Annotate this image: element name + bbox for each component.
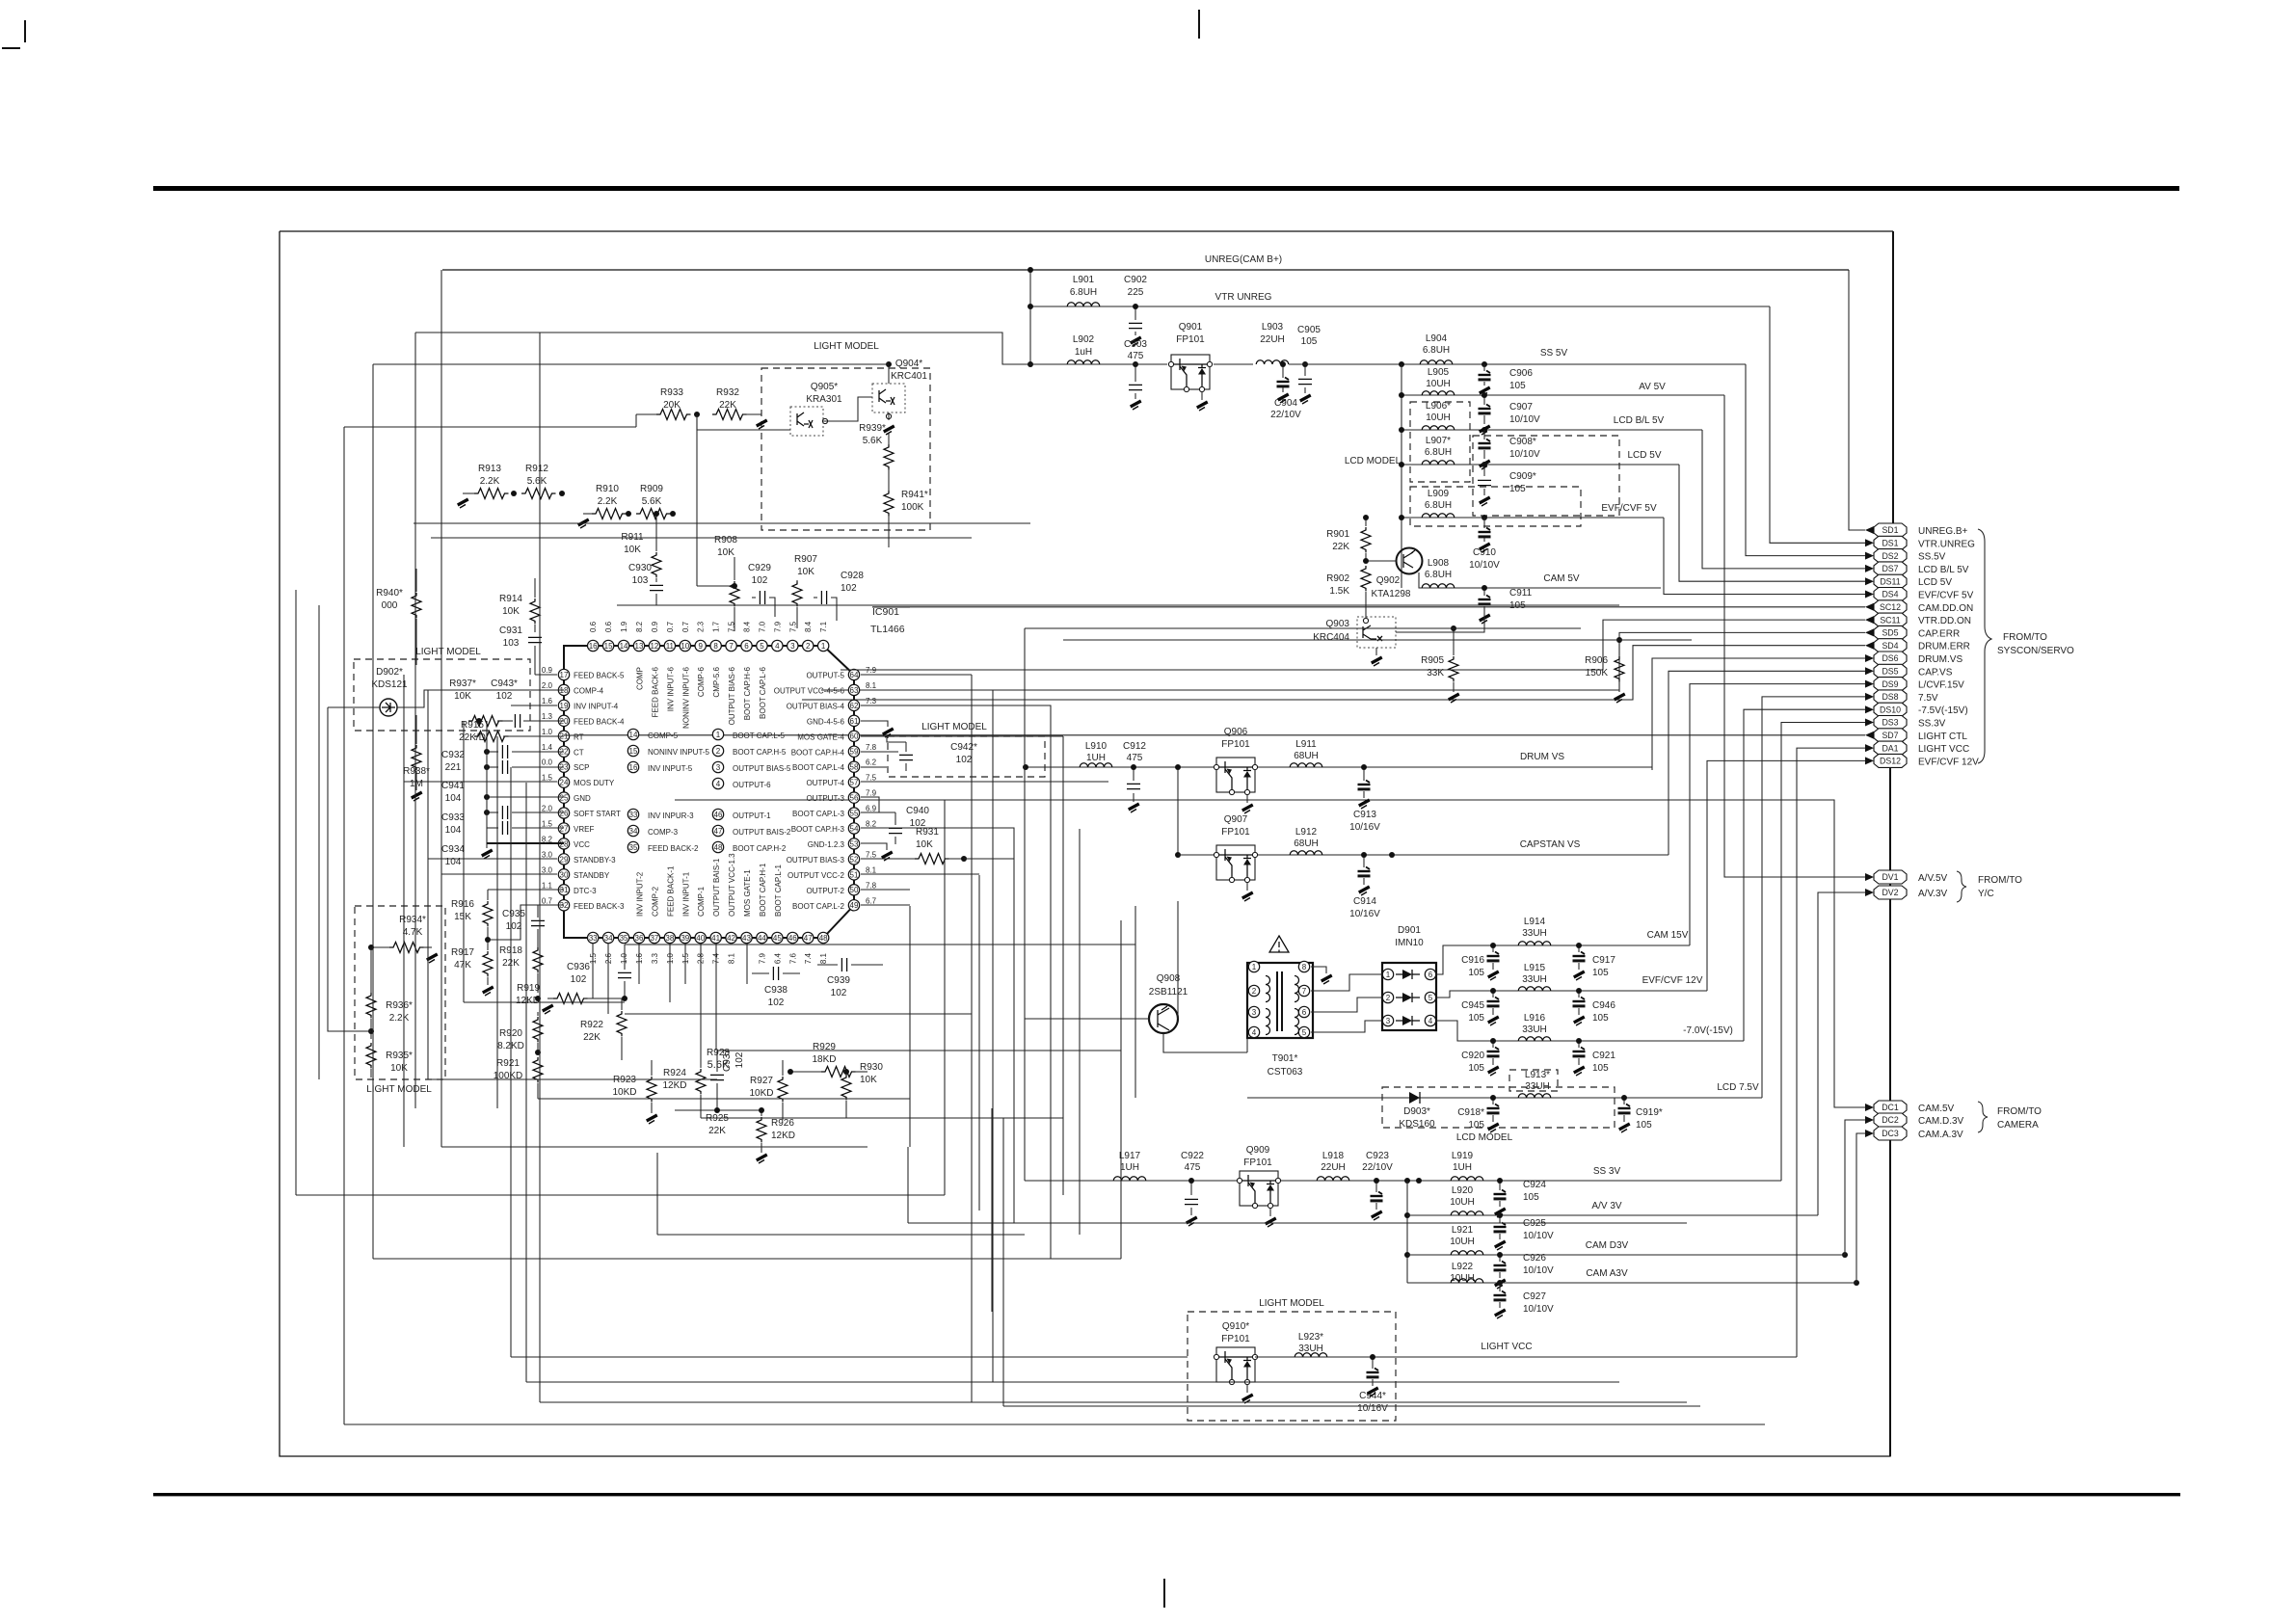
capacitor C925 bbox=[1494, 1212, 1555, 1250]
resistor R926 bbox=[756, 1107, 795, 1163]
net LCD B/L 5V bbox=[1402, 429, 1702, 431]
svg-text:60: 60 bbox=[850, 732, 859, 741]
inductor L915 bbox=[1518, 963, 1551, 991]
svg-text:C911: C911 bbox=[1509, 588, 1533, 599]
connector pin SD5 bbox=[1865, 625, 1960, 639]
svg-text:29: 29 bbox=[560, 855, 569, 864]
IC901 pin 35 (bottom) bbox=[618, 932, 628, 964]
svg-text:22UH: 22UH bbox=[1321, 1162, 1346, 1173]
IC901 pin 53 (right) bbox=[808, 838, 860, 849]
svg-text:1: 1 bbox=[821, 642, 826, 651]
svg-text:3.3: 3.3 bbox=[651, 952, 659, 964]
wire to pin DC3 bbox=[1856, 1133, 1865, 1283]
svg-text:56: 56 bbox=[850, 794, 859, 803]
IC901 pin 11 (top) bbox=[664, 621, 675, 711]
svg-text:105: 105 bbox=[1523, 1192, 1539, 1203]
svg-text:225: 225 bbox=[1128, 287, 1144, 298]
inductor L902 bbox=[1067, 334, 1100, 364]
connector pin DA1 bbox=[1865, 741, 1969, 755]
svg-text:IMN10: IMN10 bbox=[1395, 938, 1424, 948]
svg-text:C934: C934 bbox=[441, 844, 465, 855]
svg-text:BOOT CAP.L-4: BOOT CAP.L-4 bbox=[792, 763, 845, 772]
svg-text:102: 102 bbox=[734, 1051, 745, 1068]
svg-text:KDS160: KDS160 bbox=[1399, 1119, 1435, 1130]
inductor L910 bbox=[1080, 741, 1112, 767]
wire D902 gate bbox=[328, 706, 380, 708]
connector pin SD1 bbox=[1865, 523, 1968, 537]
net CAM 5V bbox=[1419, 572, 1661, 588]
svg-text:22UH: 22UH bbox=[1260, 334, 1285, 345]
svg-text:8.2: 8.2 bbox=[635, 621, 644, 632]
svg-text:0.7: 0.7 bbox=[681, 621, 690, 632]
capacitor C903 bbox=[1124, 339, 1147, 410]
connector pin DC2 bbox=[1865, 1113, 1964, 1127]
svg-text:R933: R933 bbox=[660, 387, 683, 398]
inductor L917 bbox=[1113, 1151, 1146, 1181]
capacitor C906 bbox=[1479, 364, 1534, 396]
svg-text:DRUM VS: DRUM VS bbox=[1520, 752, 1564, 762]
svg-text:STANDBY: STANDBY bbox=[574, 871, 610, 880]
svg-text:104: 104 bbox=[445, 825, 462, 836]
wire to pin DS1 bbox=[1770, 306, 1865, 543]
svg-text:C931: C931 bbox=[499, 625, 522, 636]
svg-text:14: 14 bbox=[629, 731, 638, 739]
inductor L916 bbox=[1518, 1013, 1551, 1041]
net UNREG(CAM B+) bbox=[442, 269, 1849, 271]
svg-text:C917: C917 bbox=[1592, 955, 1615, 966]
svg-text:D902*: D902* bbox=[376, 667, 403, 678]
svg-text:DS4: DS4 bbox=[1882, 590, 1898, 599]
svg-text:CAM A3V: CAM A3V bbox=[1586, 1268, 1628, 1279]
resistor R907 bbox=[792, 554, 817, 628]
svg-text:475: 475 bbox=[1128, 351, 1144, 361]
resistor R931 bbox=[861, 827, 939, 861]
capacitor C921 bbox=[1573, 1038, 1616, 1076]
capacitor C904 bbox=[1270, 361, 1301, 420]
svg-text:R902: R902 bbox=[1326, 573, 1349, 584]
svg-text:2.6: 2.6 bbox=[604, 952, 613, 964]
svg-text:44: 44 bbox=[758, 934, 766, 943]
svg-text:68UH: 68UH bbox=[1294, 838, 1319, 849]
svg-text:105: 105 bbox=[1468, 1120, 1484, 1131]
svg-text:12KD: 12KD bbox=[662, 1080, 686, 1091]
dashed box LIGHT MODEL D902 bbox=[354, 659, 530, 731]
IC901 pin 6 (top) bbox=[741, 621, 752, 720]
svg-text:IC901: IC901 bbox=[872, 606, 899, 618]
svg-text:L908: L908 bbox=[1428, 558, 1450, 569]
IC901 pin 51 (right) bbox=[788, 865, 877, 880]
capacitor C940 bbox=[861, 806, 929, 844]
svg-text:R935*: R935* bbox=[386, 1051, 413, 1061]
connector pin SC11 bbox=[1865, 613, 1971, 626]
svg-text:LIGHT CTL: LIGHT CTL bbox=[1918, 732, 1967, 742]
svg-text:INV INPUT-2: INV INPUT-2 bbox=[635, 871, 644, 917]
svg-text:C902: C902 bbox=[1124, 275, 1147, 285]
svg-text:48: 48 bbox=[819, 934, 828, 943]
inductor L912 bbox=[1290, 827, 1322, 855]
svg-text:102: 102 bbox=[768, 998, 785, 1008]
IC901 interior pin 33 bbox=[627, 809, 694, 820]
svg-text:KTA1298: KTA1298 bbox=[1372, 589, 1411, 599]
svg-text:25: 25 bbox=[560, 794, 569, 803]
svg-text:4.7K: 4.7K bbox=[403, 927, 423, 938]
svg-text:FEED BACK-1: FEED BACK-1 bbox=[666, 865, 675, 917]
svg-text:105: 105 bbox=[1592, 1013, 1609, 1024]
svg-text:DS11: DS11 bbox=[1880, 576, 1900, 586]
svg-text:L919: L919 bbox=[1452, 1151, 1474, 1161]
wire Q905 base to R933 node bbox=[697, 414, 790, 430]
svg-text:SYSCON/SERVO: SYSCON/SERVO bbox=[1997, 646, 2074, 656]
svg-text:10K: 10K bbox=[717, 547, 734, 558]
svg-text:GND-1.2.3: GND-1.2.3 bbox=[808, 840, 845, 849]
svg-text:FP101: FP101 bbox=[1243, 1157, 1272, 1168]
resistor R910 bbox=[577, 484, 627, 528]
svg-text:R909: R909 bbox=[640, 484, 663, 494]
connector pin DS7 bbox=[1865, 562, 1969, 575]
svg-text:2.3: 2.3 bbox=[697, 621, 706, 632]
transistor Q907 FP101 bbox=[1214, 814, 1257, 901]
svg-text:10/10V: 10/10V bbox=[1523, 1231, 1554, 1241]
svg-text:-7.0V(-15V): -7.0V(-15V) bbox=[1683, 1025, 1733, 1036]
svg-text:7.1: 7.1 bbox=[819, 621, 828, 632]
IC901 pin 40 (bottom) bbox=[695, 886, 706, 964]
svg-text:L904: L904 bbox=[1426, 333, 1448, 344]
svg-text:105: 105 bbox=[1509, 484, 1526, 494]
capacitor C942 bbox=[861, 736, 977, 771]
svg-text:10: 10 bbox=[681, 642, 689, 651]
svg-text:SOFT START: SOFT START bbox=[574, 810, 621, 818]
svg-text:DS10: DS10 bbox=[1880, 705, 1901, 714]
capacitor C923 bbox=[1362, 1151, 1393, 1220]
svg-text:3: 3 bbox=[790, 642, 795, 651]
svg-text:3: 3 bbox=[1386, 1017, 1391, 1025]
wire to pin DC2 bbox=[1845, 1120, 1865, 1255]
net CAM D3V bbox=[1407, 1254, 1845, 1256]
IC901 pin 39 (bottom) bbox=[680, 871, 690, 964]
svg-text:BOOT CAP.H-5: BOOT CAP.H-5 bbox=[733, 748, 787, 757]
connector pin DS6 bbox=[1865, 652, 1962, 665]
wire pin31 DTC-3 bbox=[488, 889, 564, 891]
svg-text:AV 5V: AV 5V bbox=[1639, 382, 1666, 392]
svg-text:L/CVF.15V: L/CVF.15V bbox=[1918, 680, 1964, 691]
IC901 pin 12 (top) bbox=[649, 621, 659, 717]
svg-text:8: 8 bbox=[1302, 963, 1307, 971]
net DRUM VS bbox=[1026, 766, 1652, 768]
svg-text:C940: C940 bbox=[906, 806, 929, 816]
IC901 pin 41 (bottom) bbox=[710, 858, 721, 964]
svg-text:102: 102 bbox=[841, 583, 857, 594]
net LIGHT VCC bbox=[1255, 1356, 1797, 1358]
IC901 pin 54 (right) bbox=[791, 820, 877, 835]
capacitor C945 bbox=[1461, 988, 1499, 1025]
svg-text:FEED BACK-6: FEED BACK-6 bbox=[651, 666, 659, 717]
connector pin DS1 bbox=[1865, 536, 1975, 549]
svg-text:38: 38 bbox=[665, 934, 674, 943]
svg-text:10KD: 10KD bbox=[749, 1088, 773, 1099]
dashed box LIGHT MODEL bottom bbox=[1188, 1312, 1396, 1421]
IC901 interior pin 34 bbox=[627, 825, 678, 837]
wire to pin DV1 bbox=[1724, 395, 1865, 877]
svg-text:FROM/TO: FROM/TO bbox=[2003, 632, 2047, 643]
transistor Q910 FP101 bbox=[1214, 1321, 1257, 1403]
svg-text:Q901: Q901 bbox=[1179, 322, 1203, 333]
svg-text:35: 35 bbox=[620, 934, 628, 943]
IC901 pin 31 (left) bbox=[542, 881, 597, 895]
svg-text:7.3: 7.3 bbox=[866, 697, 877, 705]
svg-text:2.2K: 2.2K bbox=[598, 496, 618, 507]
svg-text:4: 4 bbox=[1252, 1028, 1257, 1037]
svg-text:0.9: 0.9 bbox=[542, 666, 553, 675]
svg-text:FEED BACK-5: FEED BACK-5 bbox=[574, 672, 625, 680]
svg-text:1UH: 1UH bbox=[1453, 1162, 1472, 1173]
svg-text:7.6: 7.6 bbox=[788, 952, 797, 964]
wire to pin SC11 bbox=[841, 620, 1865, 670]
IC901 pin 16 (top) bbox=[588, 621, 599, 651]
svg-text:R926: R926 bbox=[771, 1118, 794, 1129]
svg-text:OUTPUT BAIS-2: OUTPUT BAIS-2 bbox=[733, 828, 791, 837]
svg-text:10KD: 10KD bbox=[612, 1087, 636, 1098]
wires T901 to D901 bbox=[1311, 974, 1382, 991]
wire bus mid horizontals bbox=[625, 1013, 972, 1015]
svg-text:UNREG.B+: UNREG.B+ bbox=[1918, 526, 1968, 537]
svg-text:C939: C939 bbox=[827, 975, 850, 986]
IC901 pin 57 (right) bbox=[806, 774, 876, 788]
capacitor C911 bbox=[1479, 585, 1533, 624]
IC901 pin 9 (top) bbox=[695, 621, 706, 697]
svg-text:L920: L920 bbox=[1452, 1185, 1474, 1196]
svg-text:L914: L914 bbox=[1524, 917, 1546, 927]
svg-text:CAM.DD.ON: CAM.DD.ON bbox=[1918, 603, 1973, 614]
svg-text:R939*: R939* bbox=[859, 423, 886, 434]
connector pin DV1 bbox=[1865, 870, 1948, 884]
svg-text:CAM.D.3V: CAM.D.3V bbox=[1918, 1116, 1964, 1127]
svg-text:R924: R924 bbox=[663, 1068, 686, 1078]
svg-text:10/16V: 10/16V bbox=[1349, 822, 1380, 833]
svg-text:SS 3V: SS 3V bbox=[1593, 1166, 1621, 1177]
IC901 interior pin 46 bbox=[712, 809, 771, 820]
capacitor C934 bbox=[441, 806, 564, 867]
IC901 pin 17 (left) bbox=[542, 666, 625, 680]
transistor Q905 KRA301 bbox=[790, 382, 842, 436]
svg-text:OUTPUT VCC-2: OUTPUT VCC-2 bbox=[788, 871, 845, 880]
svg-text:7.5: 7.5 bbox=[866, 774, 877, 783]
svg-text:LIGHT VCC: LIGHT VCC bbox=[1481, 1342, 1532, 1352]
capacitor C902 bbox=[1124, 275, 1147, 346]
svg-text:Q907: Q907 bbox=[1224, 814, 1248, 825]
svg-text:LIGHT MODEL: LIGHT MODEL bbox=[366, 1084, 432, 1095]
svg-text:6: 6 bbox=[744, 642, 749, 651]
svg-text:102: 102 bbox=[831, 988, 847, 998]
svg-text:43: 43 bbox=[742, 934, 751, 943]
inductor L922 bbox=[1450, 1262, 1483, 1284]
svg-text:41: 41 bbox=[711, 934, 720, 943]
svg-text:L913*: L913* bbox=[1525, 1070, 1550, 1080]
svg-text:R928: R928 bbox=[707, 1048, 730, 1058]
svg-text:1.7: 1.7 bbox=[712, 621, 721, 632]
wire outer loop right lower thick bbox=[1889, 767, 1891, 1456]
wire to pin DS10 bbox=[1744, 709, 1865, 1041]
connector pin SD4 bbox=[1865, 639, 1970, 652]
IC901 interior pin 2 bbox=[712, 745, 787, 757]
diode D902 KDS121 bbox=[371, 667, 564, 716]
IC901 pin 21 (left) bbox=[542, 728, 584, 742]
svg-text:INV INPUR-3: INV INPUR-3 bbox=[648, 811, 694, 820]
svg-text:CAM D3V: CAM D3V bbox=[1586, 1240, 1629, 1251]
resistor R916 bbox=[451, 890, 493, 950]
resistor R901 bbox=[1326, 515, 1371, 561]
svg-text:5.6K: 5.6K bbox=[707, 1059, 730, 1071]
inductor L909 bbox=[1422, 489, 1455, 518]
svg-text:12: 12 bbox=[650, 642, 658, 651]
svg-text:102: 102 bbox=[571, 974, 587, 985]
svg-text:A/V.5V: A/V.5V bbox=[1918, 873, 1948, 884]
wire to pin DS9 bbox=[1690, 684, 1865, 945]
svg-text:1.5: 1.5 bbox=[589, 952, 598, 964]
svg-text:7.8: 7.8 bbox=[866, 881, 877, 890]
resistor R920 bbox=[497, 1012, 543, 1055]
IC901 pin 8 (top) bbox=[710, 621, 721, 697]
svg-text:8.1: 8.1 bbox=[728, 952, 736, 964]
svg-text:42: 42 bbox=[727, 934, 735, 943]
capacitor C905 bbox=[1297, 325, 1321, 404]
svg-text:FROM/TO: FROM/TO bbox=[1978, 875, 2022, 886]
transistor Q902 KTA1298 bbox=[1363, 548, 1423, 600]
svg-text:DV1: DV1 bbox=[1882, 872, 1898, 882]
svg-text:1UH: 1UH bbox=[1086, 753, 1106, 763]
resistor R911 bbox=[621, 511, 661, 577]
svg-text:C941: C941 bbox=[441, 781, 465, 791]
transistor Q906 FP101 bbox=[1214, 727, 1257, 813]
IC901 interior pin 16 bbox=[627, 761, 692, 773]
IC901 pin 62 (right) bbox=[787, 697, 877, 711]
svg-text:5: 5 bbox=[1302, 1028, 1307, 1037]
svg-text:R908: R908 bbox=[714, 535, 737, 545]
capacitor C910 bbox=[1469, 518, 1500, 571]
svg-text:R910: R910 bbox=[596, 484, 619, 494]
capacitor C924 bbox=[1494, 1178, 1547, 1217]
svg-text:104: 104 bbox=[445, 793, 462, 804]
svg-text:RT: RT bbox=[574, 732, 584, 741]
svg-text:C942*: C942* bbox=[950, 742, 977, 753]
svg-text:6: 6 bbox=[1302, 1008, 1307, 1017]
junction rail above IC bbox=[697, 585, 734, 587]
capacitor C919 bbox=[1618, 1095, 1663, 1132]
wire to pin DV2 bbox=[1818, 892, 1865, 1215]
svg-text:R907: R907 bbox=[794, 554, 817, 565]
svg-text:C920: C920 bbox=[1461, 1051, 1484, 1061]
resistor R925 bbox=[675, 1107, 761, 1136]
svg-text:Q904*: Q904* bbox=[895, 359, 922, 369]
svg-text:C945: C945 bbox=[1461, 1000, 1484, 1011]
svg-text:R905: R905 bbox=[1421, 655, 1444, 666]
svg-text:FEED BACK-4: FEED BACK-4 bbox=[574, 717, 625, 726]
svg-text:OUTPUT-6: OUTPUT-6 bbox=[733, 781, 771, 789]
svg-text:7.0: 7.0 bbox=[758, 621, 766, 632]
svg-text:CAPSTAN VS: CAPSTAN VS bbox=[1520, 839, 1581, 850]
svg-text:OUTPUT-2: OUTPUT-2 bbox=[806, 887, 844, 895]
svg-text:4: 4 bbox=[1428, 1017, 1433, 1025]
svg-text:L906*: L906* bbox=[1426, 401, 1451, 412]
resistor R938 bbox=[403, 715, 430, 801]
svg-text:1.0: 1.0 bbox=[542, 728, 553, 736]
svg-text:R922: R922 bbox=[580, 1020, 603, 1030]
svg-text:BOOT CAP.H-3: BOOT CAP.H-3 bbox=[791, 825, 845, 834]
svg-text:7.8: 7.8 bbox=[866, 743, 877, 752]
svg-text:L918: L918 bbox=[1322, 1151, 1345, 1161]
svg-text:L902: L902 bbox=[1073, 334, 1095, 345]
svg-text:BOOT CAP.L-3: BOOT CAP.L-3 bbox=[792, 810, 845, 818]
IC901 pin 7 (top) bbox=[726, 621, 736, 725]
svg-text:FP101: FP101 bbox=[1176, 334, 1205, 345]
long rails above IC bbox=[414, 522, 1030, 524]
svg-text:10/10V: 10/10V bbox=[1509, 449, 1540, 460]
inductor L905 bbox=[1422, 367, 1455, 395]
svg-text:L901: L901 bbox=[1073, 275, 1095, 285]
inductor L907 bbox=[1422, 436, 1455, 465]
svg-text:1: 1 bbox=[1386, 971, 1391, 979]
svg-text:COMP-4: COMP-4 bbox=[574, 686, 604, 695]
page registration tick bottom-center bbox=[1163, 1579, 1165, 1608]
svg-text:8.1: 8.1 bbox=[866, 865, 877, 874]
svg-text:30: 30 bbox=[560, 870, 569, 879]
svg-text:7: 7 bbox=[729, 642, 734, 651]
svg-text:FP101: FP101 bbox=[1221, 739, 1250, 750]
svg-text:C933: C933 bbox=[441, 812, 465, 823]
brace FROM/TO CAMERA bbox=[1978, 1102, 1988, 1132]
resistor R939 bbox=[859, 423, 894, 469]
svg-text:2.0: 2.0 bbox=[542, 681, 553, 690]
svg-text:68UH: 68UH bbox=[1294, 751, 1319, 761]
IC901 pin 64 (right) bbox=[806, 666, 876, 680]
svg-text:15: 15 bbox=[604, 642, 613, 651]
net SS 3V bbox=[1025, 1180, 1781, 1182]
resistor R906 bbox=[1585, 637, 1625, 703]
wire to pin SD5 bbox=[821, 632, 1865, 690]
svg-text:LIGHT VCC: LIGHT VCC bbox=[1918, 744, 1969, 755]
svg-text:102: 102 bbox=[956, 755, 973, 765]
wire to pin SD1 bbox=[1849, 270, 1865, 530]
resistor R912 bbox=[511, 464, 565, 499]
svg-text:2.0: 2.0 bbox=[542, 805, 553, 813]
svg-text:1.3: 1.3 bbox=[542, 712, 553, 721]
dashed box LCD MODEL bottom bbox=[1382, 1087, 1615, 1128]
svg-text:C929: C929 bbox=[748, 563, 771, 573]
IC901 pin 44 (bottom) bbox=[757, 863, 767, 964]
capacitor C935 bbox=[502, 905, 545, 949]
svg-text:R906: R906 bbox=[1585, 655, 1608, 666]
svg-text:SS.3V: SS.3V bbox=[1918, 719, 1946, 730]
svg-text:DS3: DS3 bbox=[1882, 718, 1898, 728]
svg-text:LIGHT MODEL: LIGHT MODEL bbox=[814, 341, 879, 352]
resistor R918 bbox=[499, 945, 543, 993]
resistor R935 bbox=[366, 1043, 413, 1078]
IC901 pin 60 (right) bbox=[797, 731, 859, 741]
svg-text:CAM.A.3V: CAM.A.3V bbox=[1918, 1130, 1963, 1140]
svg-text:0.7: 0.7 bbox=[666, 621, 675, 632]
svg-text:R927: R927 bbox=[750, 1076, 773, 1086]
IC901 interior pin 1 bbox=[712, 729, 785, 740]
svg-text:OUTPUT BIAS-6: OUTPUT BIAS-6 bbox=[728, 666, 736, 725]
diode bridge D901 IMN10 bbox=[1382, 925, 1436, 1030]
svg-text:CAM 15V: CAM 15V bbox=[1647, 930, 1689, 941]
svg-text:6.7: 6.7 bbox=[866, 896, 877, 905]
svg-text:C910: C910 bbox=[1473, 547, 1496, 558]
svg-text:19: 19 bbox=[560, 702, 569, 710]
resistor R923 bbox=[612, 1060, 657, 1124]
IC901 pin 15 (top) bbox=[602, 621, 613, 651]
capacitor C912 bbox=[1123, 741, 1146, 812]
svg-text:7: 7 bbox=[1302, 987, 1307, 996]
